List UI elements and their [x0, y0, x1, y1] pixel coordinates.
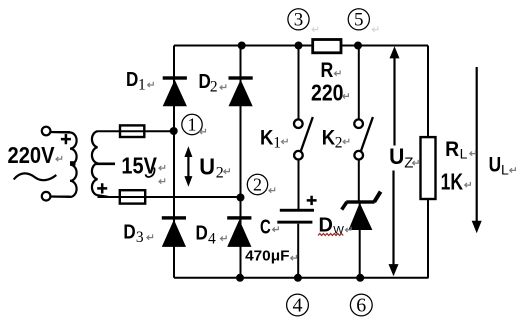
svg-text:5: 5: [354, 10, 364, 31]
svg-text:U: U: [199, 153, 215, 179]
svg-text:2: 2: [253, 175, 262, 195]
svg-text:D: D: [126, 69, 138, 91]
svg-text:220V: 220V: [8, 142, 55, 168]
svg-text:R: R: [445, 137, 459, 161]
svg-text:L: L: [460, 145, 468, 161]
svg-text:D: D: [196, 223, 208, 245]
svg-text:2: 2: [335, 135, 343, 152]
svg-text:470μF: 470μF: [245, 248, 289, 264]
svg-text:U: U: [389, 144, 404, 169]
svg-text:6: 6: [356, 295, 366, 317]
svg-text:1: 1: [273, 135, 281, 152]
svg-text:1: 1: [138, 76, 146, 93]
svg-text:3: 3: [136, 229, 144, 246]
svg-text:U: U: [489, 153, 502, 177]
svg-text:4: 4: [293, 295, 303, 317]
svg-text:1K: 1K: [441, 169, 464, 195]
svg-text:C: C: [260, 215, 271, 238]
svg-text:3: 3: [294, 10, 304, 31]
svg-text:R: R: [321, 59, 334, 82]
svg-text:D: D: [123, 221, 135, 243]
svg-text:1: 1: [188, 115, 197, 135]
svg-text:L: L: [501, 161, 509, 177]
svg-text:15V: 15V: [121, 153, 157, 179]
svg-text:2: 2: [216, 165, 224, 182]
svg-text:2: 2: [210, 78, 218, 95]
svg-text:4: 4: [208, 230, 216, 247]
svg-text:K: K: [260, 126, 273, 149]
svg-text:220: 220: [311, 80, 344, 106]
svg-text:K: K: [322, 126, 335, 149]
